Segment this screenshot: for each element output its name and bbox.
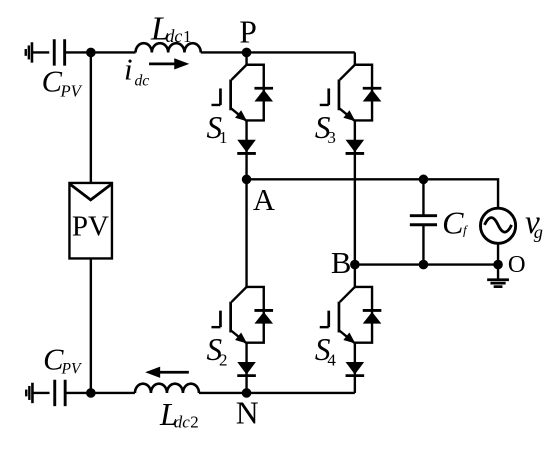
svg-text:2: 2: [219, 350, 228, 369]
svg-text:O: O: [508, 251, 526, 278]
junction: C_f bottom: [419, 260, 429, 270]
wire: top-left node to L_dc1: [91, 51, 136, 53]
wire: into S4 collector: [354, 265, 356, 289]
wire: bottom-left node to L_dc2: [91, 392, 135, 394]
label P: [239, 14, 256, 49]
series diode of S1: [237, 140, 256, 154]
label N: [236, 395, 259, 430]
series diode of S3: [346, 140, 365, 154]
chassis ground (top-left): [26, 42, 32, 62]
freewheeling diode of S1: [254, 88, 273, 101]
svg-text:dc: dc: [134, 72, 149, 89]
freewheeling diode of S4: [363, 310, 382, 323]
node N: [242, 388, 252, 398]
label O: [508, 251, 526, 278]
label L_dc1: [150, 10, 191, 47]
current arrow (leftward, bottom): [145, 367, 189, 378]
wire: chassis to C_PV (top): [32, 51, 49, 53]
transistor S2 (IGBT): [211, 287, 247, 344]
wire: into S2 collector: [245, 179, 247, 288]
svg-text:g: g: [534, 222, 543, 242]
capacitor C_PV (top): [54, 39, 64, 65]
svg-text:PV: PV: [59, 81, 82, 100]
node A: [242, 175, 252, 185]
svg-text:B: B: [331, 246, 352, 280]
svg-text:dc: dc: [166, 26, 183, 46]
svg-text:1: 1: [219, 128, 228, 147]
svg-text:1: 1: [183, 27, 191, 46]
svg-text:P: P: [239, 14, 256, 49]
label L_dc2: [159, 397, 199, 432]
wire: node A to v_g top corner: [247, 179, 499, 208]
wire: S4 to node N (bottom rail): [247, 392, 355, 394]
label S3: [315, 110, 336, 147]
label C_f: [442, 205, 469, 241]
transistor S4 (IGBT): [320, 287, 356, 344]
wire: S4 freewheel branch: [355, 287, 372, 343]
label S2: [207, 332, 228, 369]
wire: S2 freewheel branch: [247, 287, 264, 343]
svg-text:4: 4: [327, 350, 336, 369]
inductor L_dc2: [135, 384, 199, 393]
wire: C_PV to bottom-left node: [65, 392, 91, 394]
transistor S3 (IGBT): [320, 65, 356, 122]
label i_dc: [124, 51, 149, 89]
junction: bottom-left node: [86, 388, 96, 398]
wire: S4 emitter to series diode / output: [354, 343, 356, 393]
wire: C_f to B line: [422, 226, 424, 265]
AC source v_g: [480, 208, 515, 243]
wire: into S3 collector: [354, 52, 356, 65]
wire: C_PV to chassis (bottom): [32, 392, 49, 394]
label S4: [315, 332, 337, 369]
wire: L_dc1 to node P: [201, 51, 247, 53]
label B: [331, 246, 352, 280]
svg-text:N: N: [236, 395, 259, 430]
wire: S1 emitter to series diode / output: [245, 120, 247, 179]
junction: top-left node: [86, 48, 96, 58]
wire: node P to S3 leg (top rail): [247, 51, 355, 53]
label C_PV (top): [42, 65, 83, 101]
junction: C_f top: [419, 175, 429, 185]
label PV: [72, 211, 109, 243]
wire: top-left node to PV panel: [90, 52, 92, 183]
svg-text:PV: PV: [72, 211, 109, 243]
ground (node O): [487, 265, 509, 287]
inductor L_dc1: [136, 43, 201, 52]
wire: A line to C_f: [422, 179, 424, 214]
label S1: [207, 110, 228, 147]
series diode of S2: [237, 362, 256, 376]
svg-text:A: A: [253, 183, 275, 217]
label C_PV (bottom): [43, 342, 82, 377]
wire: S1 freewheel branch: [247, 65, 264, 121]
label v_g: [525, 204, 543, 242]
chassis ground (bottom-left): [26, 383, 32, 403]
capacitor C_f: [410, 216, 437, 225]
label A: [253, 183, 275, 217]
series diode of S4: [346, 362, 365, 376]
wire: into S1 collector: [245, 52, 247, 65]
wire: L_dc2 to node N: [199, 392, 247, 394]
wire: S3 freewheel branch: [355, 65, 372, 121]
capacitor C_PV (bottom): [55, 380, 65, 406]
wire: node B to node O: [355, 263, 498, 265]
svg-text:dc: dc: [174, 413, 191, 432]
freewheeling diode of S3: [363, 88, 382, 101]
wire: PV panel to bottom-left node: [90, 259, 92, 393]
svg-text:3: 3: [327, 128, 336, 147]
svg-text:PV: PV: [61, 361, 82, 378]
svg-text:i: i: [124, 51, 133, 86]
current arrow i_dc (rightward): [149, 58, 189, 69]
wire: S2 emitter to series diode / output: [245, 343, 247, 393]
transistor S1 (IGBT): [211, 65, 247, 122]
svg-text:2: 2: [190, 413, 198, 432]
node P: [242, 48, 252, 58]
svg-text:C: C: [442, 205, 464, 241]
PV panel: [69, 183, 112, 259]
wire: C_PV to top-left node: [65, 51, 91, 53]
wire: v_g to node O: [497, 243, 499, 264]
freewheeling diode of S2: [254, 310, 273, 323]
wire: S3 emitter to series diode / output: [354, 120, 356, 264]
node B: [350, 260, 360, 270]
node O: [493, 260, 503, 270]
